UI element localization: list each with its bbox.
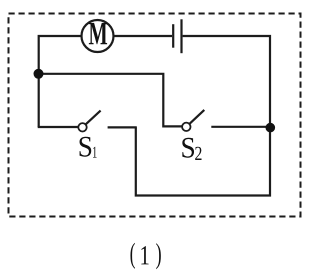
battery: long plate (positive) xyxy=(180,19,182,53)
wire: left branch from top-left corner down to S1 level xyxy=(39,36,82,127)
node A (junction dot, right) xyxy=(266,123,276,133)
wire: S2 output lead to node A xyxy=(211,126,268,128)
wire: motor to battery xyxy=(113,35,172,37)
wire: S1 output lead xyxy=(108,126,137,128)
switch S2 xyxy=(182,110,204,131)
wire: node A down, bottom run, up to S1 output corner xyxy=(136,127,270,195)
battery: short plate (negative) xyxy=(172,24,174,48)
label S1 xyxy=(80,137,97,158)
wire: node B to S2 input (middle run) xyxy=(39,74,182,127)
label S2 xyxy=(182,138,201,160)
wire: battery right, down right side to node A xyxy=(183,36,270,123)
caption (1) xyxy=(130,243,160,270)
switch S1 xyxy=(78,111,100,132)
node B (junction dot, left) xyxy=(34,69,44,79)
wire: S1 input lead xyxy=(38,126,79,128)
motor M xyxy=(82,20,114,52)
